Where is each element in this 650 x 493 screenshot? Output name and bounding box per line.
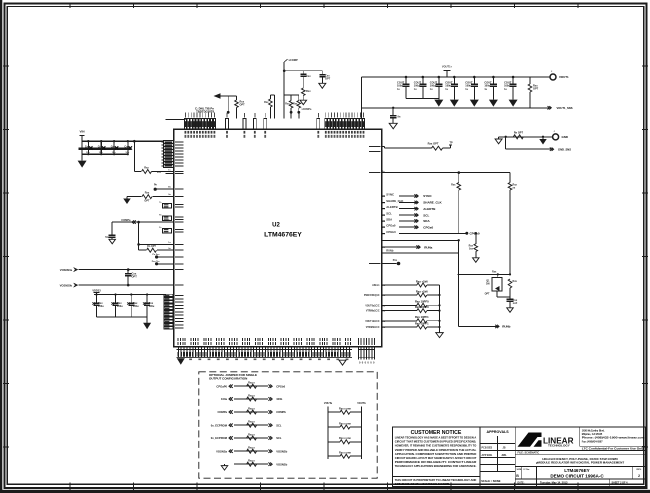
svg-text:100u: 100u (465, 84, 471, 88)
svg-text:10u: 10u (112, 152, 116, 154)
svg-text:APPROVALS: APPROVALS (487, 430, 510, 434)
svg-text:100u: 100u (133, 305, 139, 308)
svg-text:U2: U2 (272, 223, 280, 229)
svg-text:TBDTDC08T8: TBDTDC08T8 (196, 110, 214, 114)
svg-text:Cxx: Cxx (306, 75, 311, 78)
svg-text:Rxx x: Rxx x (248, 460, 255, 463)
svg-text:Pxx Trx: Pxx Trx (152, 261, 161, 263)
svg-text:JB: JB (502, 447, 505, 450)
svg-text:µMODULE REGULATOR WITH DIGITAL: µMODULE REGULATOR WITH DIGITAL POWER MAN… (536, 461, 624, 465)
svg-text:DEMO CIRCUIT 1996A-C: DEMO CIRCUIT 1996A-C (550, 473, 604, 478)
svg-text:Rxx: Rxx (145, 192, 150, 195)
svg-text:COMPa: COMPa (217, 410, 227, 414)
svg-text:VOUT1+: VOUT1+ (442, 65, 453, 69)
svg-text:VOSNSb: VOSNSb (276, 449, 287, 453)
svg-text:Rxx: Rxx (513, 280, 518, 283)
svg-text:VOUTb: VOUTb (357, 402, 366, 405)
svg-text:Rxx x nnn: Rxx x nnn (339, 422, 351, 425)
svg-text:SCL: SCL (276, 436, 282, 440)
svg-text:CPGb0: CPGb0 (276, 384, 285, 388)
svg-text:VTRIMb1C/C: VTRIMb1C/C (366, 327, 380, 329)
svg-text:Rxx OPT: Rxx OPT (428, 142, 439, 146)
svg-text:Tuesday, May 14, 2013: Tuesday, May 14, 2013 (540, 481, 568, 485)
svg-text:9n: 9n (398, 116, 401, 119)
svg-text:1630 McCarthy Blvd.: 1630 McCarthy Blvd. (582, 430, 605, 433)
svg-text:Cn: Cn (85, 145, 89, 148)
svg-text:LTM4676EY: LTM4676EY (264, 232, 302, 239)
svg-text:CPGb0: CPGb0 (386, 230, 396, 234)
svg-text:Rxx: Rxx (293, 104, 298, 106)
svg-text:B: B (516, 474, 519, 478)
svg-text:VOUT1b1C/C: VOUT1b1C/C (365, 321, 380, 323)
svg-text:100b: 100b (276, 397, 282, 401)
svg-text:DN: DN (486, 283, 490, 286)
svg-text:SYNC: SYNC (386, 193, 394, 197)
svg-text:Rxx +1k6: Rxx +1k6 (416, 279, 428, 283)
svg-text:100u: 100u (430, 84, 436, 88)
svg-text:xCOMPa: xCOMPa (302, 108, 313, 111)
svg-text:TP: TP (450, 142, 453, 145)
svg-text:SHARE_CLK: SHARE_CLK (423, 201, 442, 205)
svg-text:5n: 5n (105, 235, 109, 239)
svg-text:xCOMP: xCOMP (289, 58, 298, 62)
svg-text:Rxx 10PF1: Rxx 10PF1 (415, 321, 429, 325)
svg-text:TECHNOLOGY APPLICATIONS ENGINE: TECHNOLOGY APPLICATIONS ENGINEERING FOR … (395, 464, 477, 468)
svg-text:CPGa0: CPGa0 (386, 224, 396, 228)
svg-text:Rxx: Rxx (492, 271, 497, 274)
svg-text:Rxx x nnn: Rxx x nnn (339, 408, 351, 411)
svg-text:2: 2 (638, 474, 640, 478)
svg-text:OPT: OPT (533, 88, 539, 91)
svg-text:Pn 3sx: Pn 3sx (152, 254, 160, 256)
svg-text:OPT: OPT (485, 293, 490, 296)
svg-text:Fax: (408)434-0507: Fax: (408)434-0507 (582, 440, 603, 443)
svg-text:10u: 10u (99, 152, 103, 154)
svg-text:RUNa: RUNa (424, 245, 432, 249)
svg-text:Rxx x: Rxx x (248, 421, 255, 424)
svg-text:SIZE: SIZE (517, 469, 522, 471)
svg-text:TECHNOLOGY: TECHNOLOGY (548, 444, 571, 448)
svg-text:GND: GND (562, 135, 568, 139)
svg-text:Pn: Pn (154, 184, 158, 187)
svg-text:SCL: SCL (386, 212, 392, 216)
svg-text:Rxx x: Rxx x (248, 433, 255, 436)
svg-text:VOSNS0b: VOSNS0b (60, 283, 73, 287)
svg-text:COMPb: COMPb (276, 410, 286, 414)
svg-text:0x_ECPROM: 0x_ECPROM (211, 423, 228, 427)
svg-text:GND_SNS: GND_SNS (558, 147, 571, 151)
svg-text:ALERTB: ALERTB (386, 205, 397, 209)
svg-text:VIN: VIN (79, 129, 84, 133)
svg-text:Rxx: Rxx (306, 90, 311, 93)
svg-text:10u: 10u (125, 152, 129, 154)
svg-text:PWM FREQ1C: PWM FREQ1C (364, 295, 380, 297)
svg-text:JMIL: JMIL (501, 454, 507, 457)
svg-text:PCB DES: PCB DES (482, 447, 493, 450)
svg-text:REV.: REV. (637, 469, 642, 471)
svg-text:Rxx 10PF1: Rxx 10PF1 (415, 315, 429, 319)
svg-text:VTRIMa1C/C: VTRIMa1C/C (366, 311, 380, 313)
svg-text:VOUTa: VOUTa (324, 402, 333, 405)
svg-text:Pxx: Pxx (393, 259, 398, 262)
svg-text:5xx: 5xx (469, 248, 474, 251)
svg-text:Rxx x nnn: Rxx x nnn (339, 437, 351, 440)
svg-text:VOSNS0a: VOSNS0a (60, 268, 73, 272)
svg-text:100u: 100u (504, 84, 510, 88)
svg-text:OPT: OPT (132, 274, 138, 278)
svg-text:Cn: Cn (111, 145, 115, 148)
svg-text:Phone: (408)432-1900 www.line: Phone: (408)432-1900 www.linear.com (582, 437, 645, 440)
svg-text:SCALE = NONE: SCALE = NONE (481, 479, 501, 483)
svg-text:Rxx: Rxx (144, 167, 149, 170)
svg-text:VOSNSa: VOSNSa (216, 449, 227, 453)
svg-text:FILE: SCHEMATIC: FILE: SCHEMATIC (518, 452, 540, 455)
svg-text:CPGa0: CPGa0 (423, 225, 433, 229)
svg-text:VOUT0a1C/C: VOUT0a1C/C (365, 305, 380, 307)
svg-text:VOUT1: VOUT1 (559, 75, 569, 79)
svg-text:Rxx x: Rxx x (248, 382, 255, 385)
svg-text:nnF: nnF (513, 302, 518, 305)
svg-text:RUNb: RUNb (386, 249, 394, 253)
svg-text:OPT: OPT (325, 78, 331, 81)
svg-text:APP ENG: APP ENG (482, 454, 493, 457)
svg-text:Rxx: Rxx (451, 184, 456, 187)
svg-text:100u: 100u (149, 305, 155, 308)
svg-text:SDA: SDA (423, 219, 430, 223)
svg-text:SDA: SDA (386, 217, 392, 221)
svg-text:100u: 100u (397, 84, 403, 88)
svg-text:100a: 100a (221, 397, 227, 401)
svg-text:ALERTB: ALERTB (423, 207, 436, 211)
svg-text:Cn: Cn (124, 145, 128, 148)
svg-text:VOSNSb: VOSNSb (276, 462, 287, 466)
svg-text:OUTPUT CONFIGURATION: OUTPUT CONFIGURATION (209, 377, 247, 381)
svg-text:Cn: Cn (98, 145, 102, 148)
svg-text:Fn+: Fn+ (157, 172, 162, 174)
svg-text:Rn OPT: Rn OPT (514, 131, 524, 134)
svg-text:Rxx 10PF0: Rxx 10PF0 (415, 300, 429, 304)
svg-text:100u: 100u (484, 84, 490, 88)
svg-text:SCL: SCL (423, 213, 429, 217)
svg-text:Rxx 10PF0: Rxx 10PF0 (415, 305, 429, 309)
svg-text:LTC Confidential-For Customer: LTC Confidential-For Customer Use Only (582, 447, 645, 450)
svg-text:OPT: OPT (144, 200, 150, 203)
svg-text:VOUT1_SNS: VOUT1_SNS (557, 106, 573, 110)
svg-text:SHEET 2 OF 4: SHEET 2 OF 4 (612, 482, 629, 485)
svg-text:Rxx +1k6: Rxx +1k6 (416, 289, 428, 293)
svg-text:Rn OPT: Rn OPT (147, 245, 156, 248)
svg-text:Rxx: Rxx (264, 101, 269, 104)
svg-text:SYNC: SYNC (423, 194, 432, 198)
svg-text:Rxx x: Rxx x (248, 394, 255, 397)
svg-text:CPGaP0: CPGaP0 (216, 384, 227, 388)
svg-text:RUNb: RUNb (502, 325, 510, 329)
svg-text:COMPa: COMPa (121, 218, 131, 222)
svg-text:Milpitas, CA 95035: Milpitas, CA 95035 (582, 433, 603, 436)
svg-text:DATE:: DATE: (518, 482, 525, 485)
svg-text:OPT: OPT (240, 104, 246, 107)
svg-text:SCL: SCL (276, 423, 282, 427)
svg-text:Rxx x: Rxx x (248, 407, 255, 410)
svg-text:100u: 100u (98, 305, 104, 308)
svg-text:VDD33: VDD33 (92, 288, 101, 292)
svg-text:IC No.: IC No. (524, 469, 531, 471)
svg-text:Rxx: Rxx (285, 104, 290, 106)
svg-text:0x_ECPROM: 0x_ECPROM (211, 436, 228, 440)
svg-text:Rxx x nnn: Rxx x nnn (339, 452, 351, 455)
svg-text:100u: 100u (445, 84, 451, 88)
svg-text:100u: 100u (414, 84, 420, 88)
svg-text:Rxx x: Rxx x (248, 447, 255, 450)
svg-text:SUPPLIED FOR USE WITH LINEAR T: SUPPLIED FOR USE WITH LINEAR TECHNOLOGY … (395, 482, 450, 486)
svg-text:10u: 10u (86, 152, 90, 154)
svg-text:100u: 100u (117, 305, 123, 308)
svg-text:ASEL1: ASEL1 (372, 284, 380, 287)
